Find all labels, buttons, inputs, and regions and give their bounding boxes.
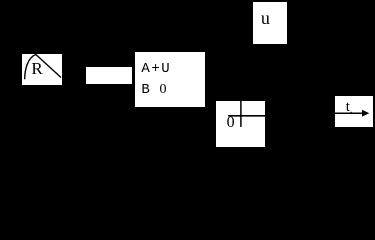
block U=A+B*0 (white box with left border)	[133, 52, 205, 107]
label A+U	[141, 62, 171, 76]
label B	[141, 83, 149, 97]
arrowhead	[362, 109, 369, 116]
label R	[31, 61, 42, 76]
label u	[261, 10, 270, 26]
u-axis (vertical line)	[216, 101, 266, 148]
label 0 (of B 0)	[160, 83, 167, 97]
axis tick	[350, 111, 352, 113]
label 0 (origin)	[227, 117, 235, 129]
label box u (white box)	[253, 2, 286, 44]
connector rectangle (wire block)	[86, 67, 133, 85]
t-axis (horizontal line)	[228, 114, 265, 116]
resonance curve (arc + falling line)	[22, 53, 62, 85]
t-axis arrow	[335, 96, 374, 128]
resonance-curve block R (white box)	[22, 54, 62, 85]
axes box with origin 0 (white box)	[216, 101, 265, 147]
label t	[346, 101, 350, 113]
time-axis box t (white box)	[335, 96, 373, 128]
